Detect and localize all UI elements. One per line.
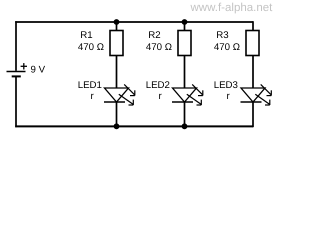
wire top rail [15,21,253,23]
svg-text:R2: R2 [148,30,160,41]
LED D2 emission arrow 1 [192,84,203,95]
svg-text:www.f-alpha.net: www.f-alpha.net [190,2,274,14]
battery BT1 positive plate [7,71,26,73]
wire branch1 middle [116,56,118,89]
svg-text:470 Ω: 470 Ω [146,42,172,53]
svg-text:LED2: LED2 [146,80,170,91]
LED D1 triangle [105,88,129,102]
resistor R2 [178,31,191,56]
svg-text:470 Ω: 470 Ω [214,42,240,53]
svg-text:R3: R3 [216,30,228,41]
battery BT1 negative plate [12,75,21,77]
LED D2 emission arrow 2 [187,94,202,105]
battery plus sign [21,63,27,69]
wire branch1 bottom [116,102,118,126]
node C (bottom junction branch 1) [114,123,120,129]
svg-text:LED3: LED3 [214,80,238,91]
LED D3 triangle [241,88,265,102]
svg-text:9 V: 9 V [31,65,46,76]
wire branch3 middle [252,56,254,89]
LED D3 emission arrow 2 [255,94,269,105]
LED D1 emission arrow 1 [124,84,135,95]
LED D3 cathode bar [241,101,262,103]
node B (top junction branch 2) [182,19,188,25]
svg-text:R1: R1 [80,30,92,41]
resistor R1 [110,31,123,56]
wire branch3 bottom [252,102,254,127]
resistor R3 [246,31,259,56]
svg-text:r: r [91,91,95,102]
svg-text:470 Ω: 470 Ω [78,42,104,53]
wire bottom rail [15,125,253,127]
wire branch3 top [252,21,254,30]
LED D1 emission arrow 2 [119,94,134,105]
LED D3 emission arrow 1 [261,84,272,95]
wire left battery branch upper [15,21,17,71]
wire branch1 top [116,22,118,31]
node D (bottom junction branch 2) [182,123,188,129]
svg-text:r: r [159,91,163,102]
LED D1 cathode bar [104,101,125,103]
wire left battery branch lower [15,76,17,127]
LED D2 triangle [173,88,197,102]
wire branch2 top [184,22,186,31]
wire branch2 bottom [184,102,186,126]
wire branch2 middle [184,56,186,89]
node A (top junction branch 1) [114,19,120,25]
svg-text:r: r [227,91,231,102]
svg-text:LED1: LED1 [78,80,102,91]
LED D2 cathode bar [172,101,193,103]
